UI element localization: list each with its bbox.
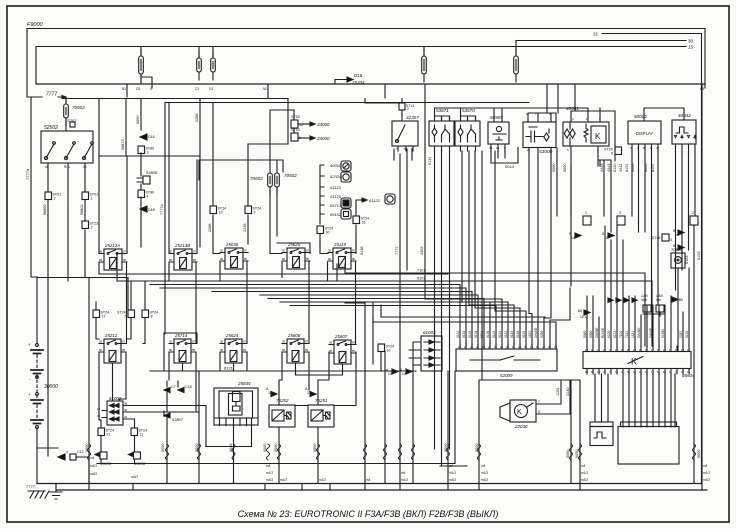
- svg-text:53807: 53807: [172, 417, 184, 422]
- svg-text:85: 85: [352, 349, 356, 353]
- svg-text:N2: N2: [263, 87, 267, 91]
- svg-text:30: 30: [169, 249, 173, 253]
- connector ST24/13: [210, 206, 217, 214]
- svg-text:GN/NE: GN/NE: [637, 327, 641, 338]
- svg-text:34000: 34000: [317, 136, 330, 141]
- svg-text:R/N: R/N: [64, 165, 70, 169]
- svg-text:0136: 0136: [486, 330, 490, 338]
- sensor 53000: [523, 122, 556, 148]
- svg-text:85: 85: [305, 348, 309, 352]
- svg-text:70602: 70602: [72, 105, 85, 110]
- module 86504: [583, 352, 691, 369]
- wire feeds top: [365, 99, 684, 123]
- relay 25212: [104, 333, 118, 338]
- svg-text:C18: C18: [185, 385, 192, 389]
- diode B16: [678, 230, 684, 235]
- svg-text:42: 42: [489, 146, 493, 150]
- svg-text:3: 3: [147, 151, 149, 155]
- svg-text:86: 86: [169, 258, 173, 262]
- svg-text:13: 13: [388, 372, 392, 376]
- wire y156: [99, 103, 356, 254]
- svg-text:0000: 0000: [444, 444, 448, 452]
- svg-text:0050: 0050: [566, 450, 570, 458]
- svg-text:53670: 53670: [462, 108, 475, 113]
- svg-text:0143: 0143: [504, 330, 508, 338]
- svg-text:2288: 2288: [195, 114, 199, 122]
- relay 25030: [225, 242, 239, 247]
- svg-text:0000: 0000: [85, 444, 89, 452]
- wire right spines: [678, 225, 694, 484]
- svg-text:30: 30: [328, 248, 332, 252]
- connector 61002: [109, 396, 122, 401]
- relay 25119: [333, 242, 346, 247]
- svg-text:25213B: 25213B: [174, 243, 190, 248]
- svg-text:m4: m4: [266, 464, 271, 468]
- svg-text:0000: 0000: [697, 450, 701, 458]
- svg-text:13: 13: [219, 211, 223, 215]
- svg-text:76251: 76251: [315, 398, 328, 403]
- svg-text:87: 87: [123, 249, 127, 253]
- svg-text:16: 16: [362, 221, 366, 225]
- connector ST46/3: [662, 234, 669, 241]
- svg-text:87: 87: [305, 339, 309, 343]
- svg-text:GN/NE: GN/NE: [595, 327, 599, 338]
- svg-text:76252: 76252: [276, 398, 289, 403]
- svg-text:7161: 7161: [625, 330, 629, 338]
- wire 61122: [356, 200, 362, 240]
- svg-text:B8: B8: [578, 309, 582, 313]
- svg-text:7777: 7777: [46, 92, 57, 98]
- connector 52009: [456, 349, 557, 371]
- svg-text:25607: 25607: [334, 334, 348, 339]
- svg-text:0046: 0046: [229, 444, 233, 452]
- wire 52502 drops: [48, 163, 85, 456]
- svg-text:m3/2: m3/2: [131, 475, 138, 479]
- diode B14: [575, 233, 581, 238]
- svg-text:30: 30: [688, 39, 694, 44]
- svg-text:85: 85: [306, 257, 310, 261]
- svg-text:5153: 5153: [685, 256, 689, 264]
- display 50002: [634, 114, 647, 119]
- svg-text:70001: 70001: [671, 247, 682, 252]
- svg-text:0000: 0000: [313, 444, 317, 452]
- svg-text:7777a: 7777a: [160, 204, 164, 215]
- svg-text:4: 4: [66, 450, 68, 454]
- svg-text:0114: 0114: [498, 331, 502, 338]
- connector ST24/21: [98, 428, 105, 436]
- svg-text:4442: 4442: [619, 164, 623, 172]
- svg-text:ST53: ST53: [291, 115, 300, 119]
- relay 25606: [287, 333, 301, 338]
- battery 30000: [36, 344, 39, 347]
- connector ST14/2: [399, 103, 405, 110]
- svg-text:30: 30: [329, 340, 333, 344]
- bottom bus 1: [37, 483, 702, 485]
- svg-text:86: 86: [99, 348, 103, 352]
- svg-text:98802: 98802: [80, 204, 84, 215]
- svg-text:86: 86: [282, 257, 286, 261]
- svg-text:13: 13: [496, 146, 500, 150]
- svg-text:F9000: F9000: [27, 22, 44, 28]
- svg-text:m1/2: m1/2: [266, 471, 273, 475]
- connector plug2: [690, 216, 698, 225]
- svg-text:30: 30: [169, 339, 173, 343]
- svg-text:25625: 25625: [287, 242, 301, 247]
- svg-text:+: +: [28, 392, 31, 397]
- svg-text:85713: 85713: [330, 203, 342, 208]
- connector plug1: [583, 216, 591, 225]
- svg-text:0050: 0050: [644, 164, 648, 172]
- svg-text:3: 3: [619, 211, 621, 215]
- wire lower mesh: [89, 84, 702, 490]
- svg-text:m1/2: m1/2: [703, 471, 710, 475]
- svg-text:32307: 32307: [406, 115, 419, 120]
- svg-text:85152: 85152: [330, 212, 342, 217]
- svg-text:m4: m4: [366, 478, 371, 482]
- svg-text:m1/2: m1/2: [581, 471, 588, 475]
- svg-text:87: 87: [306, 248, 310, 252]
- wire 34000 b: [298, 137, 310, 139]
- buzzer 22036: [500, 403, 510, 421]
- svg-text:D15: D15: [354, 73, 363, 78]
- svg-text:8: 8: [151, 315, 153, 319]
- wire line 30: [516, 40, 686, 42]
- wire line 15: [36, 47, 686, 85]
- svg-text:C8: C8: [136, 87, 140, 91]
- wire left drop: [26, 29, 28, 98]
- svg-text:87: 87: [352, 340, 356, 344]
- fuse top B: [198, 51, 200, 80]
- svg-text:4444: 4444: [607, 164, 611, 172]
- svg-text:0050: 0050: [589, 330, 593, 338]
- fuse 70602 left: [65, 97, 67, 126]
- svg-text:85: 85: [192, 348, 196, 352]
- diode 53807: [164, 411, 170, 418]
- diode A15: [271, 392, 277, 397]
- svg-text:1121: 1121: [631, 331, 635, 338]
- wire 8101: [337, 264, 652, 346]
- svg-text:m4: m4: [90, 456, 95, 460]
- node 7777: [46, 92, 57, 98]
- fuse top D: [423, 49, 425, 82]
- fuse top C: [212, 51, 214, 80]
- svg-text:87: 87: [122, 339, 126, 343]
- svg-text:1: 1: [585, 211, 587, 215]
- wire 0014: [491, 148, 518, 164]
- wire control feeds: [623, 374, 675, 427]
- svg-text:8101: 8101: [417, 277, 425, 281]
- svg-text:1103: 1103: [556, 388, 560, 396]
- wire top drops: [394, 84, 611, 484]
- svg-text:RO/VE: RO/VE: [601, 327, 605, 338]
- svg-text:4: 4: [147, 195, 149, 199]
- svg-text:C12: C12: [77, 450, 84, 454]
- icon 61122: [385, 194, 395, 204]
- svg-text:+: +: [28, 342, 31, 347]
- m labels: [90, 456, 710, 482]
- svg-text:7: 7: [124, 315, 126, 319]
- svg-text:86: 86: [328, 257, 332, 261]
- svg-text:DISPLAY: DISPLAY: [636, 131, 654, 136]
- svg-text:16: 16: [675, 233, 679, 237]
- svg-text:0000: 0000: [552, 164, 556, 172]
- svg-text:16 17: 16 17: [580, 315, 588, 319]
- svg-text:0131: 0131: [428, 157, 432, 165]
- svg-text:m3/2: m3/2: [90, 472, 97, 476]
- svg-text:14: 14: [402, 372, 406, 376]
- svg-text:31: 31: [593, 32, 599, 37]
- svg-text:0000: 0000: [563, 164, 567, 172]
- svg-text:98873: 98873: [121, 139, 125, 150]
- svg-text:30: 30: [326, 231, 330, 235]
- svg-text:ST53: ST53: [291, 128, 300, 132]
- svg-text:0050: 0050: [575, 450, 579, 458]
- svg-text:C7: C7: [171, 385, 176, 389]
- connector ST53/6: [291, 133, 298, 141]
- connector ST23/2: [82, 221, 89, 229]
- svg-text:0014: 0014: [505, 164, 515, 169]
- svg-text:61123: 61123: [330, 185, 342, 190]
- svg-text:m1/2: m1/2: [401, 478, 408, 482]
- connector 53808 A: [95, 453, 100, 457]
- svg-text:5153: 5153: [697, 252, 701, 260]
- ground hatch: [28, 491, 49, 498]
- svg-text:6120: 6120: [613, 164, 617, 172]
- diode A13: [392, 369, 398, 374]
- wire trunk y98: [63, 99, 529, 103]
- svg-text:0115: 0115: [522, 331, 526, 338]
- connector plug3: [617, 216, 625, 225]
- wire left spine: [31, 97, 37, 343]
- svg-text:30: 30: [220, 339, 224, 343]
- svg-text:6: 6: [611, 152, 613, 156]
- svg-text:30: 30: [282, 339, 286, 343]
- module 48061: [566, 106, 579, 111]
- pulse module: [590, 422, 613, 427]
- svg-text:G1: G1: [209, 87, 213, 91]
- svg-text:87: 87: [352, 248, 356, 252]
- diode C7: [164, 388, 170, 393]
- svg-text:22036: 22036: [514, 424, 528, 429]
- svg-text:34000: 34000: [317, 122, 330, 127]
- svg-text:m1/2: m1/2: [280, 478, 287, 482]
- svg-text:0134: 0134: [474, 330, 478, 338]
- svg-text:ST46: ST46: [652, 236, 660, 240]
- svg-text:0145: 0145: [510, 330, 514, 338]
- svg-text:87: 87: [244, 248, 248, 252]
- connector ST24/7: [128, 310, 135, 318]
- svg-text:40011: 40011: [330, 163, 341, 168]
- svg-text:52324: 52324: [330, 174, 342, 179]
- module 40032: [678, 113, 691, 118]
- node D15 25204: [335, 80, 347, 85]
- box 25845: [237, 381, 251, 386]
- diode B3: [678, 245, 684, 250]
- svg-text:GN/VE: GN/VE: [534, 327, 538, 338]
- svg-text:0133: 0133: [468, 330, 472, 338]
- svg-text:0132: 0132: [462, 330, 466, 338]
- svg-text:m4: m4: [703, 464, 708, 468]
- icon 52324: [341, 172, 351, 182]
- connector ST80/4: [138, 190, 145, 198]
- svg-text:85: 85: [244, 257, 248, 261]
- svg-text:2: 2: [91, 226, 93, 230]
- svg-text:25030: 25030: [225, 242, 239, 247]
- connector ST24/6: [615, 147, 622, 155]
- connector 61003: [423, 330, 436, 335]
- svg-text:8121: 8121: [224, 366, 234, 371]
- svg-text:m3/2: m3/2: [449, 478, 456, 482]
- wire 8121: [150, 333, 416, 375]
- connector ST53/13: [291, 120, 298, 128]
- caption: [238, 509, 499, 519]
- connector ST24/2: [245, 206, 252, 214]
- svg-text:0146: 0146: [516, 330, 520, 338]
- svg-text:86: 86: [99, 258, 103, 262]
- relay 76252: [276, 398, 289, 403]
- svg-text:14: 14: [571, 236, 575, 240]
- svg-text:0: 0: [150, 87, 152, 91]
- connector 53808 mid: [146, 170, 158, 175]
- svg-text:m4: m4: [449, 464, 454, 468]
- relay 25714: [174, 333, 188, 338]
- svg-text:17: 17: [307, 391, 311, 395]
- svg-text:25624: 25624: [225, 333, 239, 338]
- svg-text:7777.: 7777.: [26, 484, 36, 489]
- svg-text:4130: 4130: [566, 388, 570, 396]
- wire F9000 line: [27, 29, 705, 85]
- svg-text:3: 3: [670, 238, 672, 242]
- svg-text:58905: 58905: [490, 115, 503, 120]
- svg-text:85: 85: [352, 257, 356, 261]
- wire row2 drops: [99, 352, 381, 420]
- node F9000: [27, 22, 44, 28]
- diode D4: [58, 454, 65, 460]
- svg-text:61003: 61003: [423, 330, 436, 335]
- svg-text:30: 30: [282, 248, 286, 252]
- svg-text:10: 10: [97, 407, 101, 411]
- svg-text:high: high: [641, 298, 647, 302]
- svg-text:m4: m4: [481, 464, 486, 468]
- wire d-chain: [140, 153, 142, 247]
- svg-text:50002: 50002: [634, 114, 647, 119]
- svg-text:15: 15: [688, 45, 694, 50]
- svg-text:D16: D16: [148, 135, 155, 139]
- svg-text:7101: 7101: [619, 330, 623, 338]
- fuse 70602 mid R: [276, 166, 278, 195]
- relay 25624: [225, 333, 239, 338]
- svg-text:98860: 98860: [43, 204, 47, 215]
- svg-text:Схема № 23: EUROTRONIC II F3A/: Схема № 23: EUROTRONIC II F3A/F3B (ВКЛ) …: [238, 509, 499, 519]
- svg-text:D18: D18: [148, 208, 155, 212]
- svg-text:K: K: [517, 409, 522, 416]
- connector ST01/2: [45, 192, 52, 200]
- svg-text:61125: 61125: [330, 194, 342, 199]
- svg-text:2: 2: [407, 107, 409, 111]
- icon 85713: [341, 198, 351, 208]
- svg-text:5153: 5153: [685, 330, 689, 338]
- svg-text:15: 15: [268, 391, 272, 395]
- diode A14: [406, 369, 412, 374]
- CAN connector: [641, 294, 663, 302]
- svg-text:30: 30: [99, 339, 103, 343]
- svg-text:N1: N1: [122, 87, 126, 91]
- svg-text:m3/2: m3/2: [703, 478, 710, 482]
- svg-text:30000: 30000: [44, 384, 58, 390]
- wire line 31: [602, 34, 702, 485]
- switch box 53670: [462, 108, 475, 113]
- svg-text:42: 42: [124, 408, 128, 412]
- svg-text:0000: 0000: [161, 444, 165, 452]
- wire 34000 a: [298, 123, 310, 125]
- svg-text:25119: 25119: [333, 242, 346, 247]
- svg-text:25213A: 25213A: [104, 243, 120, 248]
- diode B12: [608, 233, 614, 238]
- relay 25213B: [174, 243, 190, 248]
- diode B5: [672, 297, 678, 302]
- svg-text:2: 2: [692, 211, 694, 215]
- svg-text:86: 86: [282, 348, 286, 352]
- svg-text:2236: 2236: [243, 224, 247, 232]
- fuse top E: [515, 49, 517, 82]
- svg-text:85: 85: [243, 348, 247, 352]
- diode row D: [608, 298, 637, 302]
- svg-text:0060: 0060: [583, 330, 587, 338]
- svg-text:8101: 8101: [625, 164, 629, 172]
- diode D16: [140, 134, 147, 140]
- svg-text:87: 87: [192, 339, 196, 343]
- svg-text:61122: 61122: [369, 198, 381, 203]
- wire display drops: [604, 153, 695, 305]
- icon 40011: [341, 161, 351, 171]
- wire row1 links: [37, 240, 472, 344]
- svg-text:61002: 61002: [109, 396, 122, 401]
- connector ST01/1: [82, 192, 89, 200]
- svg-text:B5: B5: [679, 298, 683, 302]
- connector 53808 B: [129, 453, 134, 457]
- wire 86504 feeds: [587, 226, 689, 346]
- svg-text:9131: 9131: [613, 330, 617, 338]
- svg-text:m4: m4: [581, 464, 586, 468]
- svg-text:0000: 0000: [475, 444, 479, 452]
- svg-text:17: 17: [102, 315, 106, 319]
- svg-text:4403: 4403: [420, 247, 424, 255]
- svg-text:25212: 25212: [104, 333, 118, 338]
- svg-text:86: 86: [220, 348, 224, 352]
- svg-text:48: 48: [124, 402, 128, 406]
- svg-text:86: 86: [169, 348, 173, 352]
- svg-text:m1/2: m1/2: [319, 478, 326, 482]
- connector ST24/30: [317, 226, 324, 234]
- svg-text:30: 30: [220, 248, 224, 252]
- svg-text:30: 30: [99, 249, 103, 253]
- svg-text:0000: 0000: [263, 444, 267, 452]
- sensor 70001: [671, 247, 682, 252]
- switch box 52502: [44, 125, 58, 131]
- wire loop mid: [199, 160, 283, 180]
- coil squiggles: [88, 444, 696, 460]
- bus junctions: [127, 84, 705, 111]
- svg-text:2: 2: [54, 197, 56, 201]
- fuse 70602 mid L: [269, 166, 271, 195]
- svg-text:GN/VE: GN/VE: [649, 327, 653, 338]
- svg-text:52502: 52502: [44, 125, 58, 131]
- icon 85152: [341, 209, 351, 219]
- svg-text:low: low: [656, 298, 661, 302]
- svg-text:m1/2: m1/2: [90, 464, 97, 468]
- svg-text:70602: 70602: [284, 173, 297, 178]
- svg-text:2287: 2287: [679, 330, 683, 338]
